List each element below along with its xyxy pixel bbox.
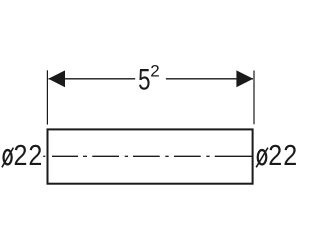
centerline dot xyxy=(206,155,209,157)
svg-text:2: 2 xyxy=(283,138,297,171)
arrowhead right xyxy=(236,70,253,87)
extension line right xyxy=(253,71,255,125)
dimension line left segment xyxy=(49,78,136,80)
svg-text:2: 2 xyxy=(28,138,42,171)
centerline dot piece left xyxy=(43,155,45,157)
centerline dot xyxy=(83,155,87,157)
label left ø symbol xyxy=(2,148,14,168)
svg-text:2: 2 xyxy=(150,62,159,81)
centerline dash long xyxy=(215,155,253,157)
arrowhead left xyxy=(48,70,65,87)
centerline dash xyxy=(92,155,119,157)
centerline dash xyxy=(133,155,160,157)
pipe body rectangle xyxy=(48,129,253,183)
label right ø symbol xyxy=(256,148,268,168)
dimension line right segment xyxy=(166,78,253,80)
centerline dot xyxy=(165,155,168,157)
centerline dash xyxy=(52,155,78,157)
centerline dot xyxy=(125,155,128,157)
centerline (dash-dot) xyxy=(43,155,253,157)
svg-text:2: 2 xyxy=(14,138,28,171)
svg-text:5: 5 xyxy=(138,62,150,96)
extension line left xyxy=(46,70,48,124)
svg-text:2: 2 xyxy=(268,138,282,171)
centerline dash xyxy=(174,155,201,157)
